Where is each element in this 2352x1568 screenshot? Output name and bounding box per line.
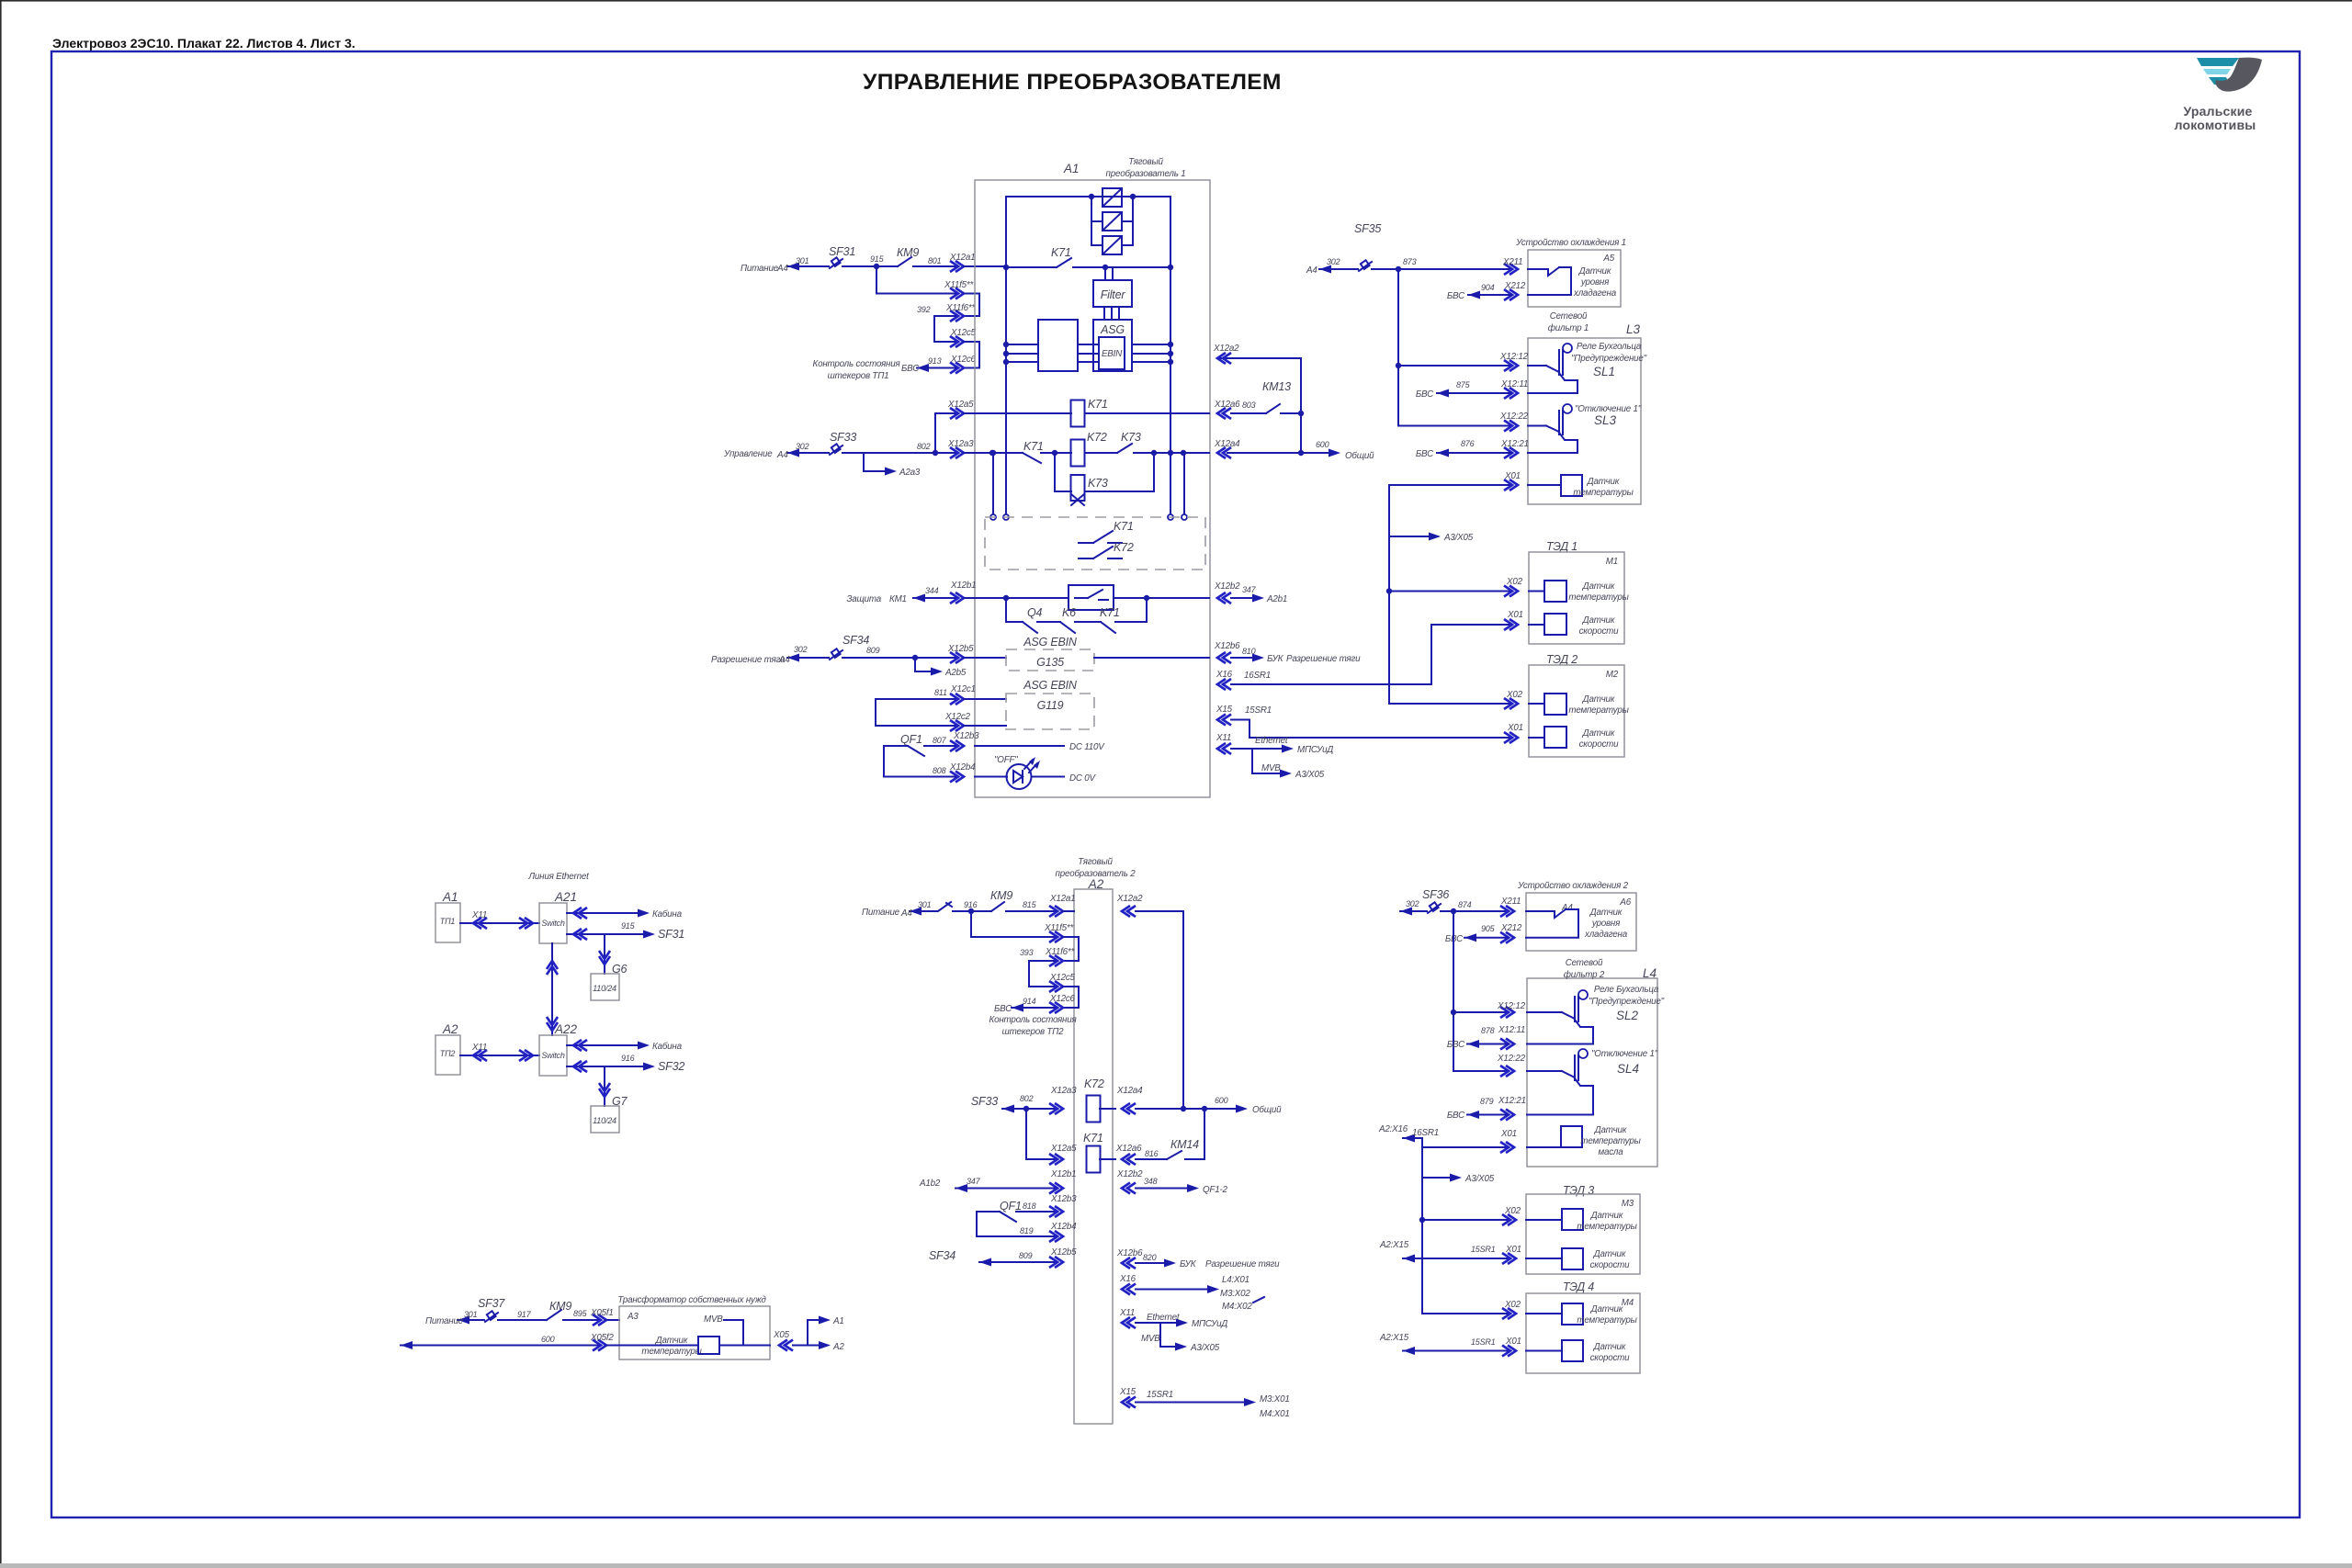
svg-text:SF33: SF33 <box>830 431 856 444</box>
svg-text:преобразователь 1: преобразователь 1 <box>1106 169 1186 179</box>
block A1 Тяговый преобразователь 1 <box>975 180 1210 797</box>
svg-text:штекеров ТП1: штекеров ТП1 <box>828 371 889 381</box>
relay coil K72 <box>1071 440 1085 467</box>
svg-text:температуры: температуры <box>1573 488 1634 498</box>
svg-text:916: 916 <box>964 900 978 909</box>
svg-text:SF32: SF32 <box>658 1060 684 1073</box>
three-phase bus right <box>1132 344 1170 345</box>
svg-text:ASG: ASG <box>1100 323 1125 336</box>
connector X12a1 <box>950 261 964 272</box>
svg-text:X15: X15 <box>1119 1387 1136 1397</box>
svg-text:X12a4: X12a4 <box>1116 1086 1143 1096</box>
wire M4 X02 row <box>1502 1308 1516 1319</box>
svg-text:X12a1: X12a1 <box>1049 894 1075 904</box>
svg-text:Датчик: Датчик <box>1589 908 1623 918</box>
svg-text:хладагена: хладагена <box>1584 930 1628 940</box>
breaker switch A2 feed <box>938 902 951 911</box>
branch MVB <box>1252 749 1288 773</box>
svg-text:Управление: Управление <box>723 449 773 459</box>
wire A21 Кабина <box>567 912 644 914</box>
svg-text:X12:21: X12:21 <box>1500 439 1529 449</box>
svg-text:Датчик: Датчик <box>1582 615 1615 626</box>
svg-text:X12:21: X12:21 <box>1498 1096 1526 1106</box>
wire SF33-K71 branch A2 <box>1026 1109 1057 1159</box>
wire 600 Общий A2 <box>1236 1105 1248 1113</box>
svg-text:X12:22: X12:22 <box>1499 412 1529 422</box>
svg-text:X12c5: X12c5 <box>950 328 977 338</box>
svg-text:А4: А4 <box>778 655 790 665</box>
svg-text:ТЭД 1: ТЭД 1 <box>1546 540 1577 553</box>
svg-text:Датчик: Датчик <box>1582 728 1615 739</box>
connector X05f1 <box>593 1314 606 1325</box>
svg-text:392: 392 <box>917 305 931 314</box>
svg-text:SF37: SF37 <box>478 1297 505 1310</box>
wire 810 БУК <box>1231 657 1257 659</box>
svg-text:K71: K71 <box>1051 246 1071 259</box>
connector X12a4 A2 <box>1122 1103 1136 1114</box>
svg-text:БВС: БВС <box>1447 1111 1465 1121</box>
svg-text:Сетевой: Сетевой <box>1566 958 1603 968</box>
svg-text:15SR1: 15SR1 <box>1471 1245 1496 1254</box>
svg-text:БВС: БВС <box>1416 389 1434 400</box>
svg-text:X01: X01 <box>1507 723 1523 733</box>
wire to G7 <box>604 1080 605 1106</box>
svg-text:X12:22: X12:22 <box>1497 1054 1526 1064</box>
svg-text:X02: X02 <box>1504 1206 1521 1216</box>
svg-text:A1: A1 <box>1063 162 1080 175</box>
block converter module <box>1038 320 1078 371</box>
svg-text:"Предупреждение": "Предупреждение" <box>1589 997 1665 1007</box>
svg-text:X12b2: X12b2 <box>1214 581 1240 592</box>
svg-text:М4:X01: М4:X01 <box>1260 1409 1290 1419</box>
contact K71 aux <box>1023 453 1041 463</box>
svg-text:М3:X01: М3:X01 <box>1260 1394 1290 1404</box>
connector X15 A2 <box>1122 1397 1136 1408</box>
svg-text:X12a5: X12a5 <box>947 400 974 410</box>
svg-text:Тяговый: Тяговый <box>1128 157 1163 167</box>
wire DC 110V <box>975 745 1064 747</box>
svg-text:Датчик: Датчик <box>1587 477 1620 487</box>
wire X11f5-X11f6 loop <box>964 294 979 317</box>
svg-text:816: 816 <box>1145 1149 1159 1158</box>
svg-text:БВС: БВС <box>1447 1040 1465 1050</box>
svg-text:A2: A2 <box>442 1022 458 1036</box>
svg-text:температуры: температуры <box>1580 1136 1641 1146</box>
svg-text:QF1-2: QF1-2 <box>1203 1185 1228 1195</box>
svg-text:X12c6: X12c6 <box>950 355 977 365</box>
svg-text:X12:12: X12:12 <box>1497 1001 1526 1011</box>
svg-text:X12b2: X12b2 <box>1116 1169 1143 1179</box>
svg-text:348: 348 <box>1144 1177 1158 1186</box>
svg-text:Электровоз 2ЭС10. Плакат 22. Л: Электровоз 2ЭС10. Плакат 22. Листов 4. Л… <box>52 36 356 51</box>
svg-text:X01: X01 <box>1500 1129 1517 1139</box>
svg-text:A2a3: A2a3 <box>899 468 921 478</box>
svg-text:A1: A1 <box>442 890 458 904</box>
svg-text:температуры: температуры <box>641 1347 702 1357</box>
svg-text:A2: A2 <box>832 1342 844 1352</box>
svg-text:917: 917 <box>517 1310 532 1319</box>
dashed block ASG EBIN G135 <box>1006 649 1094 671</box>
svg-text:15SR1: 15SR1 <box>1147 1390 1173 1400</box>
svg-text:Тяговый: Тяговый <box>1078 857 1113 867</box>
wire X11f5-X11f6 loop A2 <box>1063 937 1079 961</box>
wire 347 A2b1 <box>1231 597 1257 599</box>
svg-text:Датчик: Датчик <box>655 1336 688 1346</box>
svg-text:М3: М3 <box>1622 1199 1634 1209</box>
speed sensor M3 <box>1562 1248 1583 1269</box>
svg-text:X12b6: X12b6 <box>1214 641 1240 651</box>
branch to A1 A2 <box>808 1320 825 1346</box>
branch MVB A2 <box>1160 1323 1181 1347</box>
wire M3 X02 row <box>1422 1219 1510 1221</box>
svg-text:916: 916 <box>621 1054 635 1063</box>
svg-text:Кабина: Кабина <box>652 1042 683 1052</box>
connector X12-11 row 878 L4 <box>1500 1039 1514 1050</box>
wire 913 to БВС <box>917 367 955 369</box>
svg-text:Filter: Filter <box>1101 288 1126 301</box>
relay coil K71 <box>1071 400 1085 427</box>
temp sensor M2 <box>1544 694 1566 715</box>
wire X12c1-X12c2 loop <box>876 699 957 726</box>
svg-text:A3/X05: A3/X05 <box>1464 1174 1495 1184</box>
svg-text:локомотивы: локомотивы <box>2175 118 2256 132</box>
svg-text:895: 895 <box>573 1309 588 1318</box>
svg-text:302: 302 <box>1327 257 1340 266</box>
wire M4 X01 row 15SR1 <box>1403 1350 1510 1352</box>
coolant level sensor A6 <box>1526 910 1555 912</box>
connector X12-11 row 875 <box>1504 388 1518 399</box>
svg-text:X01: X01 <box>1504 471 1521 481</box>
temp sensor M1 <box>1544 581 1566 602</box>
svg-text:Питание: Питание <box>425 1316 464 1326</box>
contact K71 main <box>1003 265 1009 270</box>
wire X12b4 row A2 <box>977 1235 1057 1237</box>
svg-text:X12a6: X12a6 <box>1115 1144 1142 1154</box>
svg-text:X01: X01 <box>1507 610 1523 620</box>
connector X12a6 <box>1217 408 1231 419</box>
wire SF34 809 row A2 <box>979 1261 1057 1263</box>
svg-text:X12a6: X12a6 <box>1214 400 1240 410</box>
svg-text:ТЭД 3: ТЭД 3 <box>1563 1184 1594 1197</box>
dashed block ASG EBIN G119 <box>1006 694 1094 729</box>
svg-text:А5: А5 <box>1602 254 1614 264</box>
svg-text:MVB: MVB <box>1141 1334 1160 1344</box>
svg-text:A2:X15: A2:X15 <box>1379 1240 1409 1250</box>
relay coil K71 A2 <box>1087 1146 1101 1173</box>
svg-text:A2:X16: A2:X16 <box>1378 1124 1408 1134</box>
svg-text:302: 302 <box>1406 899 1419 908</box>
svg-text:температуры: температуры <box>1568 592 1629 603</box>
svg-text:X12b3: X12b3 <box>1050 1194 1077 1204</box>
svg-text:скорости: скорости <box>1579 626 1620 637</box>
svg-text:819: 819 <box>1020 1226 1034 1235</box>
svg-text:600: 600 <box>1316 440 1329 449</box>
svg-text:879: 879 <box>1480 1097 1494 1106</box>
svg-text:808: 808 <box>933 766 946 775</box>
svg-text:БВС: БВС <box>901 364 920 374</box>
svg-text:А6: А6 <box>1619 897 1631 908</box>
page top edge line <box>0 0 2352 2</box>
connector X12b1 <box>950 592 964 604</box>
connector X12a4 <box>1217 447 1231 458</box>
wire A21 SF31 915 <box>567 933 605 935</box>
page left edge line <box>0 0 2 1568</box>
svg-text:803: 803 <box>1242 400 1256 410</box>
svg-text:X11f5**: X11f5** <box>944 280 974 290</box>
wire X12a2 loop <box>1217 358 1301 453</box>
svg-text:X12b1: X12b1 <box>1050 1169 1076 1179</box>
svg-text:K71: K71 <box>1083 1132 1103 1145</box>
svg-text:X16: X16 <box>1216 670 1233 680</box>
oil temperature sensor L4 <box>1561 1126 1582 1147</box>
svg-text:X01: X01 <box>1505 1245 1521 1255</box>
svg-text:915: 915 <box>621 921 636 931</box>
svg-text:А4: А4 <box>776 264 788 274</box>
svg-text:344: 344 <box>925 586 939 595</box>
svg-text:913: 913 <box>928 356 942 366</box>
dashed aux contact box <box>985 517 1205 570</box>
wire 914 БВС A2 <box>1012 1007 1055 1009</box>
logo Уральские локомотивы icon <box>2197 58 2262 92</box>
relay SL3 Buchholz trip <box>1528 425 1546 427</box>
svg-text:X211: X211 <box>1500 897 1521 907</box>
svg-text:K6: K6 <box>1062 606 1076 619</box>
breaker SF37 <box>485 1313 498 1322</box>
svg-text:K72: K72 <box>1087 431 1107 444</box>
svg-text:фильтр 2: фильтр 2 <box>1564 970 1605 980</box>
svg-text:Датчик: Датчик <box>1593 1342 1626 1352</box>
svg-text:G119: G119 <box>1037 699 1064 712</box>
svg-text:А1b2: А1b2 <box>919 1179 941 1189</box>
connector X12b6 A2 row 820 <box>1122 1258 1136 1269</box>
branch A3/X05 lower <box>1422 1177 1455 1179</box>
svg-text:815: 815 <box>1023 900 1037 909</box>
svg-text:X12b3: X12b3 <box>953 731 979 741</box>
bus verticals to terminals <box>1005 267 1007 517</box>
svg-text:Switch: Switch <box>541 1051 565 1060</box>
wire SF35 bus down <box>1398 269 1511 426</box>
svg-text:Ethernet: Ethernet <box>1147 1313 1181 1323</box>
svg-text:М3:X02: М3:X02 <box>1220 1289 1250 1299</box>
svg-text:ТЭД 2: ТЭД 2 <box>1546 653 1577 666</box>
svg-text:X12a2: X12a2 <box>1213 344 1239 354</box>
svg-text:Датчик: Датчик <box>1578 266 1611 276</box>
svg-text:уровня: уровня <box>1591 919 1621 929</box>
svg-text:809: 809 <box>1019 1251 1033 1260</box>
svg-text:L3: L3 <box>1626 322 1641 336</box>
svg-text:М1: М1 <box>1606 557 1618 567</box>
wire Питание A2 row 301 <box>910 910 937 912</box>
connector X12b5 <box>950 652 964 663</box>
wire M2 X02 row <box>1504 698 1518 709</box>
svg-text:A3/X05: A3/X05 <box>1443 533 1474 543</box>
relay coil K72 A2 <box>1087 1096 1101 1122</box>
svg-text:ТЭД 4: ТЭД 4 <box>1563 1280 1594 1293</box>
svg-text:Сетевой: Сетевой <box>1550 311 1588 321</box>
svg-text:БВС: БВС <box>1447 291 1465 301</box>
contact KM9 <box>898 257 911 266</box>
svg-text:Трансформатор собственных нужд: Трансформатор собственных нужд <box>617 1295 766 1305</box>
svg-text:Switch: Switch <box>541 919 565 928</box>
svg-text:K72: K72 <box>1084 1077 1104 1090</box>
wire M2 X01 row <box>1504 732 1518 743</box>
svg-text:Контроль состояния: Контроль состояния <box>989 1015 1078 1025</box>
svg-text:X11f6**: X11f6** <box>945 303 976 313</box>
svg-text:X212: X212 <box>1504 281 1526 291</box>
svg-text:A3/X05: A3/X05 <box>1190 1343 1220 1353</box>
svg-text:905: 905 <box>1481 924 1496 933</box>
svg-text:МПСУиД: МПСУиД <box>1192 1319 1227 1329</box>
breaker SF33 <box>830 446 842 455</box>
svg-text:X12b5: X12b5 <box>947 644 974 654</box>
connector X12a6 A2 <box>1122 1154 1136 1165</box>
svg-text:811: 811 <box>934 688 947 697</box>
wire X12a5 row <box>935 413 957 453</box>
svg-text:температуры: температуры <box>1568 705 1629 716</box>
svg-text:818: 818 <box>1023 1201 1036 1211</box>
connector X11 Ethernet <box>1217 743 1231 754</box>
branch A2b5 <box>915 658 936 671</box>
svg-text:А4: А4 <box>776 450 788 460</box>
wire M1 X01 row <box>1504 619 1518 630</box>
svg-text:X12c2: X12c2 <box>944 712 971 722</box>
svg-text:Контроль состояния: Контроль состояния <box>813 359 901 369</box>
svg-text:A2:X15: A2:X15 <box>1379 1333 1409 1343</box>
contact KM9 A2 <box>971 910 991 912</box>
svg-text:скорости: скорости <box>1579 739 1620 750</box>
connector X16 A2 <box>1122 1284 1136 1295</box>
bypass contact box <box>1069 585 1114 610</box>
connector X12c6 A2 <box>1049 1002 1063 1013</box>
connector X11f6 A2 <box>1049 955 1063 966</box>
wire A2X16 16SR1 row <box>1403 1137 1422 1139</box>
block L4 Сетевой фильтр 2 <box>1527 978 1657 1167</box>
svg-text:X15: X15 <box>1216 705 1233 715</box>
svg-text:302: 302 <box>796 442 809 451</box>
svg-text:Датчик: Датчик <box>1593 1249 1626 1259</box>
svg-text:Питание: Питание <box>741 264 779 274</box>
svg-text:K72: K72 <box>1114 541 1134 554</box>
wire 392 loop to X12c5 <box>934 316 957 342</box>
connector X12b1 A2 <box>1049 1183 1063 1194</box>
connector X12a1 A2 <box>1049 906 1063 917</box>
svg-text:Устройство охлаждения 1: Устройство охлаждения 1 <box>1515 238 1626 248</box>
connector X12a3 <box>950 447 964 458</box>
svg-text:БВС: БВС <box>994 1004 1012 1014</box>
connector X15 row <box>1217 715 1231 726</box>
svg-text:X02: X02 <box>1506 577 1523 587</box>
wire X12b4 row DC 0V <box>884 776 957 778</box>
svg-text:SL3: SL3 <box>1594 413 1617 427</box>
svg-text:X12b5: X12b5 <box>1050 1247 1077 1258</box>
wire Разрешение тяги row <box>787 657 829 659</box>
wire 393 loop to X12c5 A2 <box>1029 961 1057 987</box>
connector X12c2 <box>950 720 964 731</box>
svg-text:УПРАВЛЕНИЕ ПРЕОБРАЗОВАТЕЛЕМ: УПРАВЛЕНИЕ ПРЕОБРАЗОВАТЕЛЕМ <box>863 70 1282 95</box>
svg-text:Кабина: Кабина <box>652 909 683 919</box>
svg-text:SF31: SF31 <box>658 928 684 941</box>
wire Питание SF37 row <box>458 1319 484 1321</box>
diode module stack <box>1091 197 1092 245</box>
relay coil K73 loop <box>1055 453 1071 491</box>
svg-text:масла: масла <box>1598 1147 1623 1157</box>
wire SF36 row 302 <box>1400 910 1427 912</box>
svg-text:16SR1: 16SR1 <box>1412 1128 1439 1138</box>
wire X12-22 row <box>1398 425 1511 427</box>
svg-text:SF34: SF34 <box>842 634 869 647</box>
svg-text:М4:X02: М4:X02 <box>1222 1302 1252 1312</box>
svg-text:X212: X212 <box>1500 923 1522 933</box>
connector X12c5 <box>950 336 964 347</box>
svg-text:874: 874 <box>1458 900 1472 909</box>
svg-text:914: 914 <box>1023 997 1036 1006</box>
connector X12-21 row 876 <box>1504 447 1518 458</box>
svg-text:М4: М4 <box>1622 1298 1634 1308</box>
svg-text:X05: X05 <box>773 1330 790 1340</box>
svg-text:301: 301 <box>796 256 809 265</box>
svg-text:15SR1: 15SR1 <box>1471 1337 1496 1347</box>
wire M3 X01 row 15SR1 <box>1403 1258 1510 1259</box>
wire X12-12 row L4 <box>1453 1011 1508 1013</box>
wire to G6 <box>604 948 605 974</box>
svg-text:301: 301 <box>464 1310 478 1319</box>
wire Защита row 344 <box>913 597 957 599</box>
svg-text:A2b5: A2b5 <box>944 668 967 678</box>
svg-text:Датчик: Датчик <box>1590 1211 1623 1221</box>
svg-text:DC 0V: DC 0V <box>1069 773 1097 784</box>
svg-text:301: 301 <box>918 900 932 909</box>
svg-text:16SR1: 16SR1 <box>1244 671 1271 681</box>
connector X211 <box>1504 264 1518 275</box>
speed sensor M4 <box>1562 1340 1583 1361</box>
svg-text:DC 110V: DC 110V <box>1069 742 1105 752</box>
LED OFF indicator <box>1007 764 1032 789</box>
svg-text:X12a2: X12a2 <box>1116 894 1143 904</box>
svg-text:КМ9: КМ9 <box>990 889 1012 902</box>
relay SL2 Buchholz warning <box>1527 1011 1562 1013</box>
connector X211 A6 <box>1500 906 1514 917</box>
svg-text:904: 904 <box>1481 283 1495 292</box>
svg-text:Датчик: Датчик <box>1594 1125 1627 1135</box>
connector X12a2 A2 <box>1122 906 1136 917</box>
svg-text:110/24: 110/24 <box>593 1116 616 1125</box>
wire SF35 row 302 <box>1319 268 1358 270</box>
svg-text:КМ14: КМ14 <box>1170 1138 1199 1151</box>
svg-text:X05f1: X05f1 <box>590 1308 614 1318</box>
wire X12-22 row L4 <box>1453 1070 1508 1072</box>
svg-text:L4:X01: L4:X01 <box>1222 1275 1249 1285</box>
connector X01 oil temp <box>1500 1142 1514 1153</box>
svg-text:802: 802 <box>917 442 931 451</box>
svg-text:X02: X02 <box>1504 1300 1521 1310</box>
svg-text:Устройство охлаждения 2: Устройство охлаждения 2 <box>1517 881 1629 891</box>
svg-text:SL4: SL4 <box>1617 1062 1639 1076</box>
svg-text:X12:12: X12:12 <box>1499 352 1529 362</box>
svg-text:ASG EBIN: ASG EBIN <box>1023 636 1078 649</box>
svg-text:L4: L4 <box>1643 966 1657 980</box>
svg-text:873: 873 <box>1403 257 1417 266</box>
page bottom gray strip <box>0 1563 2352 1568</box>
wire Питание row 301 <box>787 265 829 267</box>
svg-text:600: 600 <box>1215 1096 1228 1105</box>
svg-text:КМ1: КМ1 <box>889 594 907 604</box>
svg-text:SF35: SF35 <box>1354 222 1381 235</box>
svg-text:Линия Ethernet: Линия Ethernet <box>527 872 590 882</box>
svg-text:K71: K71 <box>1114 520 1134 533</box>
svg-text:Реле Бухгольца: Реле Бухгольца <box>1577 342 1642 352</box>
speed sensor M1 <box>1544 614 1566 635</box>
svg-text:X12b6: X12b6 <box>1116 1248 1143 1258</box>
